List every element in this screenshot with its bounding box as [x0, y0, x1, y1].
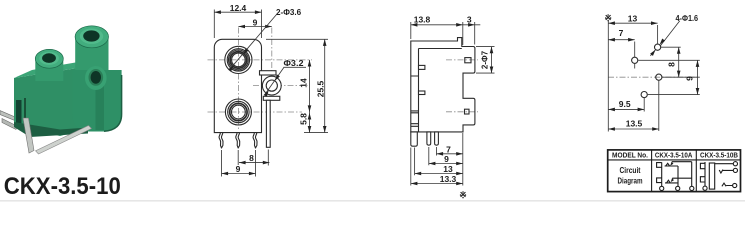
svg-text:12.4: 12.4: [230, 3, 247, 13]
svg-text:13.5: 13.5: [626, 119, 643, 129]
svg-text:13: 13: [443, 164, 453, 174]
svg-text:Φ3.2: Φ3.2: [284, 58, 304, 68]
svg-text:8: 8: [249, 153, 254, 163]
svg-text:MODEL No.: MODEL No.: [612, 151, 648, 160]
svg-text:※: ※: [459, 190, 467, 200]
svg-text:CKX-3.5-10B: CKX-3.5-10B: [700, 151, 738, 160]
svg-text:25.5: 25.5: [316, 80, 326, 97]
svg-text:8: 8: [667, 62, 677, 67]
svg-text:7: 7: [619, 28, 624, 38]
svg-text:3: 3: [467, 15, 472, 25]
svg-text:13: 13: [628, 14, 638, 24]
svg-text:9: 9: [444, 154, 449, 164]
svg-text:CKX-3.5-10: CKX-3.5-10: [4, 173, 121, 200]
svg-text:14: 14: [299, 78, 309, 88]
svg-text:2-Φ3.6: 2-Φ3.6: [276, 7, 301, 17]
svg-text:9: 9: [253, 17, 258, 27]
svg-text:Diagram: Diagram: [618, 176, 643, 185]
svg-text:※: ※: [604, 13, 612, 23]
svg-text:5.8: 5.8: [299, 113, 309, 125]
svg-text:4-Φ1.6: 4-Φ1.6: [676, 13, 699, 23]
svg-text:CKX-3.5-10A: CKX-3.5-10A: [655, 151, 693, 160]
svg-text:9: 9: [236, 164, 241, 174]
svg-text:13.8: 13.8: [414, 15, 431, 25]
svg-text:9: 9: [685, 76, 695, 81]
svg-text:7: 7: [446, 144, 451, 154]
svg-text:9.5: 9.5: [619, 99, 631, 109]
svg-text:13.3: 13.3: [440, 174, 457, 184]
svg-text:2-Φ7: 2-Φ7: [481, 50, 490, 69]
svg-text:Circuit: Circuit: [620, 166, 641, 175]
